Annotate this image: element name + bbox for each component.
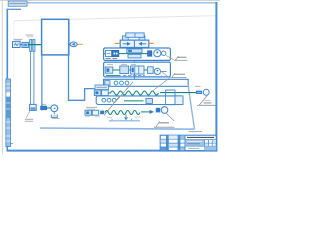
row2 sub-frame ticks — [111, 119, 113, 121]
drain stem and triangle under row2 — [124, 115, 128, 121]
label D angle mark — [154, 122, 175, 128]
frame bottom line — [7, 150, 218, 152]
tier A to tier B tick — [133, 60, 135, 62]
gauge connector row1 — [196, 91, 202, 94]
component box over row1 line — [166, 90, 175, 105]
small label above title block — [189, 131, 203, 133]
tier B small labels — [107, 63, 136, 65]
left stamp column — [6, 79, 13, 147]
hose row2 label text — [86, 107, 97, 109]
tier B lower teal segment — [106, 74, 121, 76]
row2 arrow component — [150, 110, 155, 114]
hose row1 link — [108, 92, 111, 94]
hose row2 connector — [100, 111, 104, 115]
row2 sub-frame bottom segment — [109, 120, 140, 122]
valve to tier ticks — [126, 48, 128, 50]
pump box P — [41, 106, 47, 110]
leader diagonal L2 — [115, 82, 133, 102]
leader to label A — [166, 55, 174, 60]
strip teal dash — [124, 100, 144, 102]
tier A valve pair — [105, 50, 118, 58]
filter F1 — [30, 104, 37, 110]
tier A teal line — [104, 53, 148, 55]
tank below motor — [51, 112, 59, 119]
pump box N1 — [22, 42, 28, 47]
outer thin border left — [1, 0, 3, 155]
label A angle mark — [174, 56, 188, 60]
pump P label — [42, 103, 46, 105]
tier A center valve lower bar — [128, 54, 141, 58]
hose row1 straight line to gauge — [160, 92, 196, 94]
enclosure bottom edge — [40, 128, 195, 129]
middle manifold strip — [96, 96, 183, 105]
orange solenoid stub right — [149, 42, 154, 44]
hose row2 straight to arrow — [141, 111, 150, 113]
tier C tick — [133, 74, 135, 79]
orange solenoid stub left — [115, 42, 120, 44]
row2 gauge circle — [161, 107, 168, 114]
electric motor box M1 — [13, 42, 21, 48]
leader diagonal L1 — [104, 96, 120, 116]
row2 connector box — [156, 108, 160, 113]
enclosure right edge — [188, 85, 194, 129]
accumulator twin bars A1 — [30, 40, 35, 52]
label above accumulator — [26, 35, 34, 37]
link pump to motor — [47, 107, 52, 109]
leader to label B — [160, 71, 169, 78]
strip circles — [102, 98, 116, 102]
manifold tier C strip — [104, 79, 189, 86]
pilot caps on valve — [122, 36, 128, 40]
faint photo edge top — [14, 16, 216, 21]
top-left document label box — [8, 1, 27, 6]
manifold tier B box — [104, 62, 171, 77]
title block — [160, 135, 216, 150]
main pressure line teal — [28, 44, 70, 46]
motor-pump link — [20, 44, 22, 46]
tier A right valve — [148, 51, 152, 56]
frame top line — [27, 2, 218, 4]
frame top-left stub — [7, 8, 21, 10]
cylinder return pipe path — [69, 47, 95, 100]
gauge M1 label — [195, 85, 201, 87]
gauge circle row1 — [203, 89, 209, 95]
frame right line — [215, 2, 217, 151]
directional valve DV top block — [120, 40, 149, 47]
leader to pump label — [26, 111, 30, 118]
outer thin border top — [0, 0, 220, 2]
tier C left box — [105, 81, 110, 85]
tier A gauge circle — [154, 50, 166, 57]
check valve on pressure line — [70, 42, 83, 47]
tier B left valve — [105, 67, 113, 73]
hydraulic cylinder body (big rectangle) — [42, 19, 69, 55]
tiny gray labels under row2 — [85, 116, 141, 118]
label B angle mark — [171, 73, 187, 78]
sheet background — [0, 0, 220, 156]
tier B right valve and gauge — [148, 67, 167, 75]
manifold tier A box — [104, 48, 171, 60]
tier B teal segment — [113, 69, 147, 71]
tier B lower blue dashes — [123, 74, 145, 76]
strip small valve — [146, 98, 152, 103]
faint photo edge left — [13, 21, 15, 78]
pilot bridge bar — [126, 33, 144, 37]
pump unit label P1 — [14, 39, 23, 41]
tier B center valve group — [120, 66, 144, 74]
hose row1 wavy line — [111, 91, 159, 95]
leader diagonal L3 — [153, 78, 171, 91]
leader from row2 gauge — [166, 113, 174, 121]
pump group label text — [25, 119, 33, 121]
tier A center valve upper bar — [127, 48, 142, 53]
motor circle M — [51, 105, 58, 116]
left drain pipe — [41, 55, 43, 110]
tier C circles — [114, 81, 129, 85]
frame left line — [6, 9, 8, 151]
hose row1 valve pair — [94, 90, 108, 96]
hose row2 wavy line — [105, 111, 140, 115]
strip right sub box — [175, 96, 183, 105]
suction pipe twin lines — [31, 51, 34, 104]
label C triangle mark — [197, 95, 216, 105]
hose row2 valve pair — [85, 110, 99, 115]
hose row1 label box — [95, 85, 108, 90]
